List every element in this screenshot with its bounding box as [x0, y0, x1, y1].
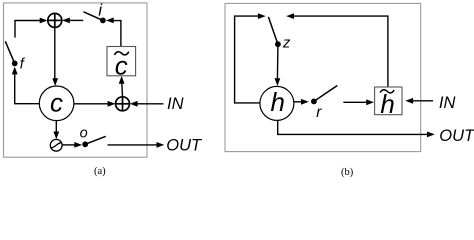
wire: c left output to left column corner — [15, 74, 40, 104]
arrow OUT (b) — [427, 132, 435, 138]
caption (b) — [341, 167, 354, 178]
label f — [20, 57, 26, 73]
arrow toward switch z from left — [258, 13, 266, 19]
label c — [50, 88, 63, 118]
wire: c bottom down to squash — [55, 121, 57, 133]
svg-text:z: z — [282, 35, 291, 52]
arrow into h-tilde box right (IN, leftward) — [405, 98, 413, 104]
label OUT (a) — [166, 137, 203, 155]
arrow into gate o dot (rightward) — [74, 142, 82, 148]
label IN (b) — [439, 94, 456, 112]
block c-tilde box — [107, 47, 136, 76]
adder plus1 (top) — [48, 13, 62, 27]
label i — [98, 0, 103, 19]
arrow into gate r dot (rightward) — [301, 99, 309, 105]
label r — [316, 104, 322, 121]
wire: c right output to plus2 — [74, 103, 109, 105]
svg-text:h: h — [380, 89, 394, 119]
svg-text:OUT: OUT — [166, 137, 203, 155]
arrow into gate f dot (upward) — [12, 67, 18, 75]
wire: IN to plus2 — [137, 103, 163, 105]
arrow into h-tilde box left (rightward) — [366, 99, 374, 105]
figure (a) frame — [4, 3, 148, 157]
label z — [282, 35, 291, 52]
wire: f fixed contact up to top-left corner then right to plus1 — [15, 21, 41, 38]
arrow OUT (a) — [157, 142, 165, 148]
adder plus2 (middle right) — [116, 97, 130, 111]
arrow into cell c (downward) — [52, 78, 58, 86]
label IN (a) — [167, 95, 184, 113]
arrow into plus2 from right (IN) — [130, 101, 138, 107]
wire: gate r to h-tilde box — [343, 101, 367, 103]
wire: h-tilde box top up to top corner then left to switch z — [293, 16, 388, 87]
wire: h right output to gate r — [294, 101, 302, 103]
label o — [80, 126, 88, 142]
arrow into h (downward) — [275, 78, 281, 86]
wire: from c-tilde box top up and left to gate i — [113, 21, 121, 47]
svg-text:(b): (b) — [341, 167, 354, 178]
wire: plus2 up to c-tilde box — [121, 83, 124, 97]
arrow into squash circle (downward) — [53, 132, 59, 140]
svg-text:IN: IN — [439, 94, 456, 112]
svg-text:OUT: OUT — [439, 127, 474, 145]
switch gate z: lever — [268, 17, 278, 44]
switch gate o: dot — [82, 141, 88, 147]
switch gate i: dot — [100, 18, 106, 24]
svg-text:r: r — [316, 104, 322, 121]
switch gate f: lever — [5, 41, 14, 63]
switch gate r: dot — [311, 99, 317, 105]
label c-tilde — [114, 50, 128, 80]
wire: IN to h-tilde — [413, 100, 433, 102]
arrow toward switch z from right — [286, 13, 294, 19]
label h — [271, 87, 285, 117]
wire: switch i lever side to plus1 — [70, 19, 84, 21]
switch gate z: dot — [275, 41, 281, 47]
arrow into gate i dot (leftward) — [106, 18, 114, 24]
svg-text:IN: IN — [167, 95, 184, 113]
wire: squash to gate o — [62, 144, 74, 146]
arrow into plus1 from right — [62, 18, 70, 24]
switch gate o: lever — [85, 136, 106, 144]
memory cell c circle — [39, 86, 74, 121]
wire: plus1 down to cell c — [54, 27, 56, 79]
switch gate r: lever — [314, 86, 337, 102]
label h-tilde — [380, 89, 395, 119]
caption (a) — [94, 166, 106, 177]
label OUT (b) — [439, 127, 474, 145]
activation h circle — [260, 86, 294, 120]
switch gate f: dot — [12, 61, 18, 67]
svg-text:h: h — [271, 87, 285, 117]
svg-text:c: c — [50, 88, 63, 118]
wire: h left output up to top corner then right to switch z — [235, 16, 260, 103]
svg-text:o: o — [80, 126, 88, 142]
block h-tilde box — [375, 87, 402, 115]
switch gate i: lever — [84, 12, 103, 21]
svg-text:(a): (a) — [94, 166, 106, 177]
wire: switch z down to h — [276, 47, 279, 80]
arrow into plus1 from left — [40, 18, 48, 24]
arrow into plus2 from left — [108, 101, 116, 107]
arrow into c-tilde box bottom (upward) — [119, 76, 125, 84]
figure (b) frame — [225, 3, 421, 151]
squashing nonlinearity circle — [50, 139, 62, 151]
wire: h bottom down then right to OUT — [278, 120, 428, 134]
wire: gate o to OUT — [108, 144, 158, 146]
